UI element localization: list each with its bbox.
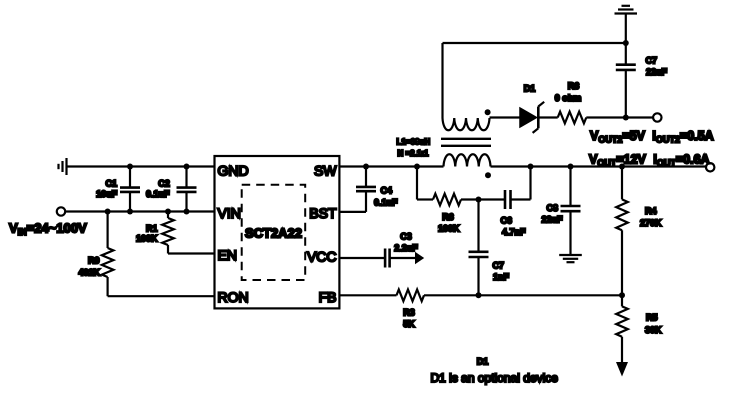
wire C3 to arrow [390,257,416,259]
wire RON rail [108,295,215,297]
node junction C4-SW [363,164,369,170]
wire diode to R6 [540,116,558,118]
label L1 value [397,137,431,158]
capacitor C7 22uF [616,43,668,118]
wire C6 to VOUT side [511,167,531,200]
svg-text:4.7nF: 4.7nF [502,227,526,237]
inductor L1 primary winding (lower) [444,154,491,166]
node junction R0-VIN [105,209,111,215]
node junction C7-FB [476,292,482,298]
svg-text:C7: C7 [646,55,658,65]
capacitor C3 2.2uF [385,231,418,267]
svg-text:22uF: 22uF [541,214,563,224]
IC U1 dashed internal outline [242,185,306,280]
svg-text:402K: 402K [78,267,100,277]
wire SW rail to inductor [339,165,443,167]
svg-text:2.2uF: 2.2uF [394,243,418,253]
svg-text:10uF: 10uF [96,189,118,199]
node polarity dot secondary [485,109,491,115]
wire R6 to C6 [461,198,505,200]
ground (secondary earth, top) [615,6,638,14]
node junction snubber-VOUT [528,164,534,170]
svg-text:R5: R5 [646,313,658,323]
svg-text:0 ohm: 0 ohm [555,93,582,103]
wire to top ground [625,14,627,44]
svg-text:R6: R6 [442,212,454,222]
svg-text:L1=68uH: L1=68uH [397,137,431,146]
svg-text:BST: BST [309,205,337,221]
wire BST rail [339,211,366,213]
resistor R6 100K (snubber) [433,194,461,234]
svg-text:RON: RON [218,289,249,305]
arrow VCC supply (points right) [415,252,424,264]
terminal VIN input [57,207,65,215]
wire FB pin to R3 [339,294,396,296]
wire R6 to VOUT2 terminal [586,116,653,118]
wire EN rail [168,252,215,254]
wire secondary left leg up [441,43,443,118]
node junction R4-VOUT [619,164,625,170]
svg-text:22uF: 22uF [646,67,668,77]
wire top rail [443,42,626,44]
svg-text:R0: R0 [88,256,100,266]
diode D1 [520,84,544,133]
ground (input earth, rotated left) [59,158,67,175]
wire secondary to diode [490,116,521,118]
svg-text:SW: SW [314,162,337,178]
ground arrow (R5 down arrow) [616,362,628,377]
capacitor C2 0.1uF [146,167,197,212]
svg-text:R6: R6 [568,81,580,91]
svg-text:D1: D1 [477,357,489,367]
svg-text:SCT2A22: SCT2A22 [245,225,302,240]
svg-text:D1 is an optional device: D1 is an optional device [431,371,559,385]
svg-text:C3: C3 [400,231,412,241]
svg-text:0.1uF: 0.1uF [374,198,398,208]
inductor secondary winding (upper) [443,118,490,130]
node polarity dot primary [485,172,491,178]
resistor R3 5K [397,290,425,330]
svg-text:100K: 100K [136,233,158,243]
terminal VOUT [706,163,714,171]
node junction top-C7 [623,40,629,46]
node junction snubber-SW [414,164,420,170]
capacitor C4 0.1uF [356,167,398,212]
node junction C1-GND [127,164,133,170]
IC U1 SCT2A22 body [215,156,340,308]
wire VCC rail [339,257,385,259]
resistor R1 100K [136,212,174,254]
node junction R1-VIN [165,209,171,215]
capacitor C6 4.7nF [501,190,527,237]
svg-text:R4: R4 [645,206,657,216]
resistor R4 270K [616,167,662,296]
svg-text:C6: C6 [501,215,513,225]
svg-text:C1: C1 [105,178,117,188]
wire snubber left drop [417,167,433,200]
svg-text:GND: GND [218,162,249,178]
resistor R5 30K [616,295,662,363]
node junction C8-VOUT [568,164,574,170]
svg-text:D1: D1 [524,84,536,94]
svg-text:C2: C2 [158,178,170,188]
svg-text:100K: 100K [438,224,460,234]
capacitor C1 10uF [96,167,140,212]
resistor R0 402K [78,212,113,297]
svg-text:FB: FB [319,289,337,305]
svg-text:VCC: VCC [307,249,337,265]
wire GND rail to IC GND pin [67,165,215,167]
node junction C1-VIN [127,209,133,215]
capacitor C7 1nF [469,200,510,296]
svg-text:30K: 30K [645,325,662,335]
svg-text:270K: 270K [640,218,662,228]
resistor R6 0 ohm [555,81,587,123]
svg-text:R1: R1 [146,223,158,233]
svg-text:5K: 5K [403,319,415,329]
node junction C7-VOUT2 [623,115,629,121]
svg-text:C7: C7 [493,261,505,271]
svg-text:C8: C8 [546,203,558,213]
node junction C2-GND [184,164,190,170]
ground (C8 earth) [559,255,582,262]
svg-text:C4: C4 [381,186,393,196]
node junction R6-C6-C7 [476,197,482,203]
svg-text:1nF: 1nF [493,272,510,282]
capacitor C8 22uF [541,167,580,256]
transformer core [441,139,491,146]
wire VOUT rail [491,165,707,167]
svg-text:R3: R3 [403,307,415,317]
terminal VOUT2 [653,113,661,121]
svg-text:EN: EN [218,247,237,263]
wire VIN rail to IC VIN pin [65,210,214,212]
svg-text:0.1uF: 0.1uF [146,189,170,199]
node junction R4-R5-FB [619,292,625,298]
wire FB rail to divider [424,294,622,296]
svg-text:N =2.1:1: N =2.1:1 [398,149,429,158]
svg-text:VIN: VIN [218,205,241,221]
node junction C2-VIN [184,209,190,215]
